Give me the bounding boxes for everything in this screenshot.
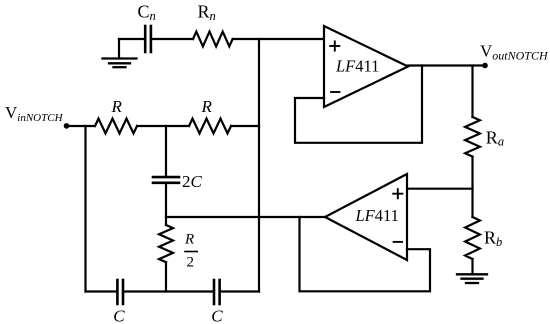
- capacitor 2C: [153, 177, 179, 183]
- wire Ra to Rb: [471, 157, 473, 217]
- wire Rn to op-amp U1 + input: [233, 38, 324, 40]
- resistor R (left): [95, 119, 137, 134]
- svg-text:C: C: [113, 307, 125, 324]
- wire main vertical node at x=259: [258, 39, 260, 292]
- resistor R/2: [159, 217, 173, 292]
- svg-text:C: C: [211, 307, 223, 324]
- capacitor Cn: [145, 26, 151, 52]
- svg-text:LF411: LF411: [355, 206, 399, 225]
- ground (below Rb): [457, 259, 487, 283]
- wire Vout to Ra: [471, 66, 473, 118]
- wire left vertical branch: [84, 126, 86, 292]
- wire U2 feedback loop: [300, 217, 431, 291]
- wire U2 + input to divider node: [407, 188, 473, 190]
- svg-text:LF411: LF411: [335, 57, 379, 76]
- capacitor C (bottom left): [117, 280, 123, 304]
- ground (top-left, at Cn): [103, 39, 137, 67]
- U1 - pin: [331, 91, 339, 93]
- wire U1 feedback loop: [295, 66, 422, 143]
- wire between R and R: [137, 125, 189, 127]
- U2 + pin: [393, 189, 402, 198]
- wire U2 output to twin-T: [166, 216, 325, 218]
- svg-text:R: R: [201, 97, 213, 116]
- svg-text:R: R: [111, 97, 123, 116]
- capacitor C (bottom right): [214, 280, 220, 304]
- svg-text:2C: 2C: [182, 172, 203, 191]
- node VoutNOTCH: [482, 63, 488, 69]
- wire R to main vertical: [231, 125, 259, 127]
- svg-text:2: 2: [187, 255, 195, 271]
- U1 + pin: [330, 41, 339, 50]
- wire bottom middle segment: [124, 290, 213, 292]
- wire 2C to crossing wire: [165, 184, 167, 217]
- wire center node down to 2C: [165, 126, 167, 176]
- resistor Rn: [193, 32, 233, 47]
- U2 - pin: [394, 241, 402, 243]
- node VinNOTCH: [64, 123, 70, 129]
- wire bottom right segment: [221, 290, 259, 292]
- wire U1 output to VoutNOTCH: [408, 64, 485, 66]
- resistor Rb: [465, 217, 480, 259]
- wire Vin to R: [67, 125, 96, 127]
- wire bottom left segment: [86, 290, 117, 292]
- label R/2 fraction: [184, 232, 198, 271]
- wire ground to Cn: [119, 38, 144, 40]
- resistor R (right): [189, 119, 231, 134]
- wire Cn to Rn: [152, 38, 193, 40]
- op-amp U2: [325, 174, 407, 260]
- op-amp U1: [324, 26, 408, 107]
- svg-text:R: R: [184, 232, 194, 248]
- resistor Ra: [465, 117, 480, 157]
